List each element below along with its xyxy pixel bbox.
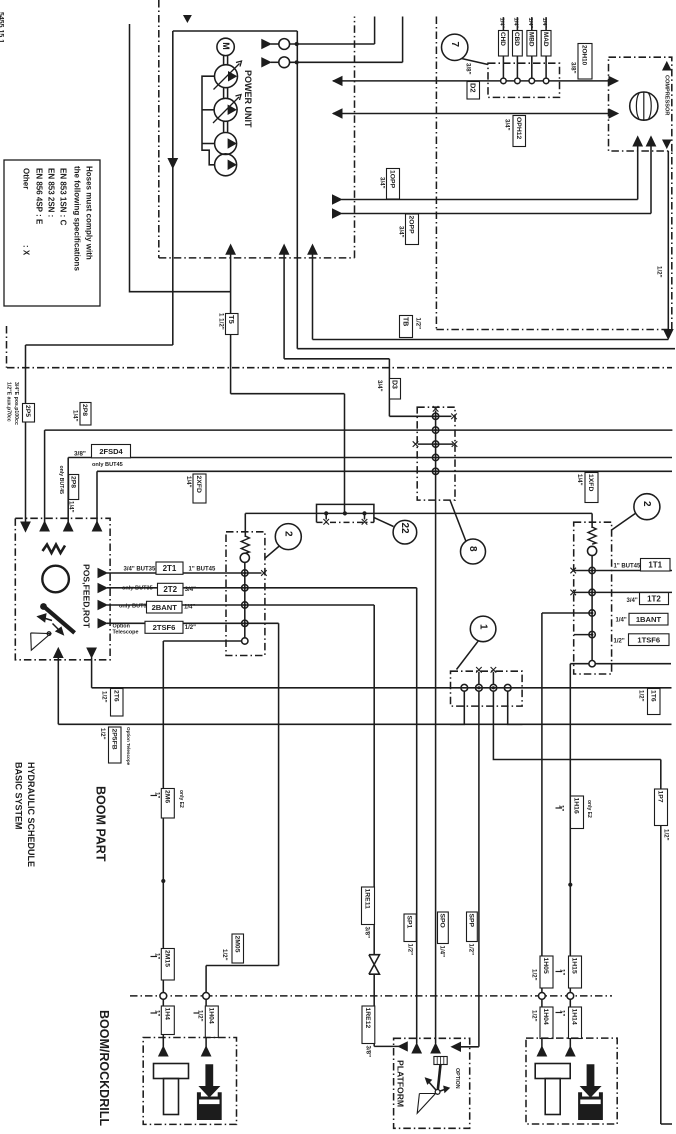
motor M circle [217,38,234,55]
wire bus: return line py349 from power unit frame to right edge [297,348,675,350]
label box SPO [438,912,449,944]
arrow: SPO into platform [431,1044,440,1054]
port 2R-5 bottom open [589,661,595,667]
symbol: joystick grip hatched [434,1057,447,1065]
svg-text:1T1: 1T1 [648,561,662,570]
callout circle 22 [393,520,417,544]
svg-text:only BUT45: only BUT45 [58,466,64,495]
wire: power-unit zone right dash-dot boundary [354,17,356,258]
svg-text:1/2": 1/2" [196,1010,203,1022]
svg-text:BOOM/ROCKDRILL: BOOM/ROCKDRILL [97,1010,111,1126]
wire: MAD riser [545,17,547,78]
wire: check to ports [591,556,593,664]
wire 2OPP: compressor supply 2 [342,213,652,215]
compressor dash-dot box [609,57,672,151]
svg-text:1": 1" [558,1010,565,1016]
svg-text:D2: D2 [469,83,478,93]
port 2R-2 1T2 [589,589,595,595]
label box 1TSF6 [629,634,670,646]
symbol: lever pivot [47,632,51,636]
frame: small dash-dot stub top-left of boundary [6,326,8,368]
arrow: flow down on power unit left edge [168,159,177,169]
svg-text:1: 1 [477,624,488,630]
svg-text:3/8": 3/8" [74,451,86,458]
node: port 22-2 from T5 [343,511,347,515]
arrow: py430 into POS box (up) [40,522,49,532]
manifold 2-right dash-dot box [574,522,612,674]
svg-text:1T2: 1T2 [647,594,661,603]
label box SPP [467,912,478,942]
arrow: 2P5 into POS box (down) [21,522,30,532]
symbol: drill steel T outline [535,1064,570,1079]
leader circle 1 to box 1 [457,641,479,669]
svg-text:1/2": 1/2" [637,690,644,702]
shaft pump2 to pump3 [223,121,225,132]
svg-text:2M05: 2M05 [233,936,240,953]
wire SP1: 2T2 drop south to platform [416,588,418,1044]
gauge port CHD [501,78,507,84]
label box 1RE12 [362,1006,375,1044]
label box 1BANT [629,613,668,625]
svg-text:2M6: 2M6 [163,790,170,803]
wire: check to port row [244,562,246,641]
svg-text:2T1: 2T1 [163,564,177,573]
arrow: py457 into POS box [64,522,73,532]
wire 2P5FB: drop to py724 bus [57,658,59,725]
arrow: D2 line into compressor box [609,77,618,86]
wire 2M6: from bottom port west [163,640,241,642]
arrow: POS box out 2T2 [98,584,107,593]
svg-text:3/4": 3/4" [627,598,638,604]
port 1-2 [476,684,483,691]
node: boundary coupling 1H15/1H14 [567,993,574,1000]
svg-text:22: 22 [399,523,410,535]
wire: T5 drop to suction manifold 22 [344,394,346,514]
pump P1 variable displacement [215,65,238,88]
wire D3: drop from py359 to manifold 8 port 1 [388,359,390,417]
svg-text:1/4": 1/4" [498,18,504,29]
manifold 2-left dash-dot box [226,532,265,656]
label box 2T2 [158,583,184,595]
symbol: drill steel T outline [154,1064,189,1079]
svg-text:3/8": 3/8" [363,927,370,939]
wire: py471 bus drop into POS box [96,471,98,523]
suction manifold box 22 [317,504,374,522]
svg-text:3/4" BUT35: 3/4" BUT35 [124,567,157,573]
wire: bracket stub pump2 [202,109,214,111]
wire: jog west to 2M05 [206,965,279,967]
svg-text:SP1: SP1 [406,916,413,929]
wire 2T1: to manifold 2-left [107,572,245,574]
tick marks for size labels [151,795,158,797]
svg-text:2T6: 2T6 [112,690,119,702]
wire 2TSF6: to corner at 278.6 [107,622,279,624]
label box OPH12 [513,116,526,147]
svg-text:1/2": 1/2" [99,728,106,740]
svg-text:2XFD: 2XFD [195,476,202,493]
shutoff valve bowtie on 1RE line [369,955,380,965]
wire 1P7: drop along right edge [660,760,662,1125]
arrow: 2M6 into rockdrill left [159,1047,168,1057]
shaft pump1 to pump2 [223,88,225,99]
symbol: relief spring zigzag [43,545,66,554]
label 2P8 box lower [69,475,79,500]
svg-text:1RE12: 1RE12 [364,1008,371,1029]
wire: port 1-4 jog to py724 bus east [508,691,523,724]
callout circle 8 [461,539,486,564]
frame: dash-dot boundary between boom part and boom/rockdrill [130,995,612,997]
wire: power unit right frame down [296,31,298,349]
svg-text:HYDRAULIC SCHEDULE: HYDRAULIC SCHEDULE [26,762,36,867]
label box 1H05 [540,956,553,988]
svg-text:Option: Option [113,623,130,629]
svg-text:Telescope: Telescope [113,630,139,636]
svg-text:2BANT: 2BANT [152,603,178,612]
label box 1RE11 [362,887,375,925]
power unit frame left edge [172,31,174,345]
wire: port 1-1 jog to py724 bus west [450,691,464,724]
svg-text:1H16: 1H16 [573,798,580,814]
label box 1H04 right [540,1007,553,1039]
svg-text:5455 15 1: 5455 15 1 [0,12,4,43]
svg-text:2M15: 2M15 [163,950,170,967]
wire: 1RE12 below valve [373,974,375,1046]
wire bus 2P5FB: py724 bus [58,723,671,725]
label box 2M15 [161,949,174,981]
frame: dash-dot zone boundary left of power unit [158,0,160,258]
svg-text:1/4": 1/4" [527,18,533,29]
wire: bottom port west then down [570,663,589,665]
svg-text:2T2: 2T2 [163,585,177,594]
label box 1P7 [655,789,668,826]
svg-text:1/2": 1/2" [614,639,625,645]
svg-text:3/4": 3/4" [185,587,196,593]
check valve in manifold 2-left [240,553,249,562]
leader manifold8 to circle 8 [450,500,466,541]
port 8-4 on py457 bus [432,454,438,460]
wire: pump outlet 1 to check valve [271,43,279,45]
arrow: POS box out 2BANT [98,601,107,610]
wire: CV1 line riser up [374,17,376,45]
svg-text:1/4": 1/4" [576,474,583,486]
manifold 8 dash-dot box [417,407,455,500]
symbol: joystick pivot [435,1090,440,1095]
svg-text:1/2": 1/2" [655,266,662,278]
node: boundary coupling 2M05/1H04 [203,993,210,1000]
port 8-2 on py430 bus [432,427,438,433]
wire: 1RE12 entry east into box [374,1045,407,1047]
wire: T5 jog east [231,393,345,395]
svg-text:OPH12: OPH12 [515,117,522,140]
svg-text:2P5FB: 2P5FB [110,729,117,750]
port 2L-3 on 2BANT [242,602,248,608]
label box 2P5FB [109,727,122,763]
svg-text:the following specifications: the following specifications [73,166,82,271]
label box 2T6 [111,689,124,717]
svg-text:1/4": 1/4" [616,618,627,624]
arrow: receiver line up [663,62,671,70]
svg-text:PLATFORM: PLATFORM [395,1060,405,1107]
arrow: riser 284 into power unit [280,245,289,255]
wire: compressor zone dash-dot boundary right [671,151,673,330]
leader manifold 2-right to circle 2 right [612,514,636,531]
arrow: POS box bottom port 2P5FB (up) [54,648,63,658]
svg-text:1/4": 1/4" [185,476,192,488]
wire: compressor zone dash-dot boundary horizontal [436,329,671,331]
wire 1BANT: from west corner to port [542,612,592,614]
wire bus 2FSD4: py457 bus [68,457,672,459]
wire bus 2XFD/1XFD: py471 bus [97,470,672,472]
wire 2BANT: to corner at 374.2 [107,604,374,606]
symbol: spring on manifold 2-right [588,527,596,544]
svg-text:1/2"E aux.p70cc: 1/2"E aux.p70cc [6,382,12,422]
wire 2M6: boom hose down to rockdrill left [162,641,164,1048]
port 2L-5 bottom open [242,638,248,644]
svg-text:Other: Other [22,168,31,189]
label box 1T1 [641,559,671,572]
svg-text:2OPP: 2OPP [408,216,415,235]
gauge port CBD [515,78,521,84]
arrow: SP1 into platform [412,1044,421,1054]
label box SP1 [404,914,416,942]
label box 1XFD [585,473,598,503]
svg-text:1/2": 1/2" [221,949,228,961]
svg-text:2: 2 [641,501,652,507]
gauge port MBD [529,78,535,84]
pump P2 variable displacement [214,98,237,121]
svg-text:MBD: MBD [527,32,534,47]
svg-text:MAD: MAD [542,32,549,47]
symbol: gauge circle [42,566,69,593]
wire: pump outlet 2 to check valve [271,61,279,63]
svg-text:OPTION: OPTION [454,1068,460,1089]
valve block POS,FEED,ROT dash-dot box [15,518,110,660]
wire: stub 22-1 plug [325,513,327,519]
label box 2FSD4 [92,445,131,458]
platform dash-dot box [394,1038,470,1128]
symbol: spring on manifold 2-left [241,536,249,553]
node: boundary coupling 1H05/1H04 [539,993,546,1000]
shaft motor to pump1 [223,56,225,65]
callout circle 1 [470,616,496,642]
frame: main dash-dot boundary between power unit and boom part [7,367,672,369]
check valve in manifold 2-right [588,546,597,555]
plug X on manifold 8 top [433,406,439,412]
symbol: joystick arrow left [428,1081,438,1092]
arrow: 1OPP into compressor [633,137,642,147]
label box 1H15 [569,956,582,988]
svg-text:Hoses must comply with: Hoses must comply with [85,166,94,260]
wire: CV2 line riser up [402,17,404,63]
wire 1OPP: compressor supply 1 [342,199,638,201]
port 1-1 open on py688 bus [461,684,468,691]
svg-text:SPP: SPP [467,914,474,928]
svg-text:CHD: CHD [499,32,506,46]
wire 2M05: down to boundary [205,966,207,1049]
label box 2T1 [156,562,183,574]
svg-text:1 1/2": 1 1/2" [217,313,224,330]
svg-text:2P8: 2P8 [69,476,76,488]
label 2P8 box upper [80,403,91,426]
arrow: T5 into power unit [226,245,235,255]
label box T5 [226,314,239,335]
svg-text:1/2": 1/2" [530,1010,537,1022]
port 2R-4 1TSF6 [589,631,595,637]
svg-text:BASIC SYSTEM: BASIC SYSTEM [13,762,23,830]
wire: 1OPP riser into compressor [637,146,639,200]
svg-text:T5: T5 [227,315,236,324]
wire: 2OPP riser into compressor [650,146,652,214]
wire: power-unit zone bottom dash-dot boundary [159,257,355,259]
svg-text:2OH10: 2OH10 [581,45,588,66]
svg-text:1H05: 1H05 [542,958,549,974]
marker: small triangle above power unit [184,16,191,23]
symbol: lever arrow 2 [53,624,60,631]
arrow: 2OPP west end [333,209,342,218]
arrow: SPP entry pointing west [452,1042,461,1051]
symbol: coupling bucket solid [578,1092,603,1120]
wire bus: suction line py513 [245,512,592,514]
symbol: coupling bucket solid [197,1092,222,1120]
label box 2M6 [161,789,174,819]
wire: py457 bus drop into POS box [67,458,69,524]
power unit frame top edge [173,30,297,32]
wire: check valve 2 output east [290,61,403,63]
wire D2: gauge line [333,80,609,82]
svg-text:only BUT35: only BUT35 [119,604,150,610]
leader from circle 7 to gauge manifold [462,59,489,65]
svg-text:1T6: 1T6 [649,690,656,702]
symbol: impact arrow solid [580,1064,602,1097]
arrow: POS box bottom port 2T6 (down) [87,648,96,658]
pump P4 fixed displacement [215,154,237,176]
label box 2M05 [232,934,244,963]
wire SPP: port 1-2 drop south [478,691,480,1047]
label box D2 [467,82,480,100]
svg-text:3/4"E pos.p100cc: 3/4"E pos.p100cc [13,382,19,425]
svg-text:1H14: 1H14 [571,1009,578,1025]
svg-text:Option Telescope: Option Telescope [126,727,131,766]
arrow: POS box out 2T1 [98,569,107,578]
svg-text:1" BUT45: 1" BUT45 [614,563,642,569]
wire: py513 drop into manifold 2-left [244,513,246,537]
svg-text:1XFD: 1XFD [587,474,594,491]
wire 1P7: port 1-3 drop then east [493,691,660,759]
label box 1H14 [569,1007,582,1039]
gauge port MAD [543,78,549,84]
arrow: drain onto return bus [664,330,673,340]
port 2R-1 1T1 [589,567,595,573]
svg-text:1/2": 1/2" [467,944,474,956]
wire bus: line py359 from riser 284 to D3 drop [284,358,389,360]
svg-text:EN 853 2SN :: EN 853 2SN : [47,168,56,217]
svg-text:1/4": 1/4" [541,18,547,29]
arrow: POS box out 2TSF6 [98,619,107,628]
svg-text:EN 853 1SN : C: EN 853 1SN : C [59,168,68,226]
wire: py430 bus drop into POS box [44,430,46,523]
wire: return line T5 riser [230,254,232,394]
wire bus 2T6/1T6: py688 return bus [92,687,672,689]
wire: CBD riser [516,17,518,78]
port 2L-2 on 2T2 [242,585,248,591]
check valve CV1 [279,39,290,50]
port 1-3 [490,684,497,691]
svg-text:1/2": 1/2" [100,691,107,703]
callout circle 2 left [275,524,301,550]
svg-text:2TSF6: 2TSF6 [153,623,176,632]
wire OPH12: gauge line 2 [333,113,609,115]
svg-text:3/4": 3/4" [376,380,383,392]
leader manifold 2-left to circle 2 [265,546,279,558]
port 8-5 on py471 bus [432,468,438,474]
symbol: joystick lever [438,1065,441,1092]
symbol: pedal wedge [31,633,51,650]
arrow: 1OPP west end [333,195,342,204]
pump P3 fixed displacement [215,133,237,155]
label TB [400,316,413,338]
node: port 22-1 [324,511,328,515]
svg-text:1/2": 1/2" [185,625,196,631]
svg-text:1/2": 1/2" [662,829,669,841]
arrow: entry pointing west [398,1042,407,1051]
wire: 1P7 bottom hook [661,1123,672,1125]
svg-text:1H04: 1H04 [207,1008,214,1024]
symbol: lever valve diagonal [42,605,75,633]
arrow: OPH12 west end [333,109,342,118]
symbol: impact arrow solid [198,1064,220,1097]
svg-text:1/2": 1/2" [530,969,537,981]
svg-text:D3: D3 [390,380,397,389]
node: junction CV2 / return riser [295,60,299,64]
arrow: D2 line west end [333,77,342,86]
rockdrill dash-dot box [526,1038,617,1124]
wire: MBD riser [531,17,533,78]
node: port 22-3 [362,511,366,515]
svg-text:2: 2 [283,531,294,537]
wire 1T2: port to right edge [573,591,672,593]
label box 1T6 [648,689,661,715]
svg-text:1H15: 1H15 [571,958,578,974]
wire 2T2: to corner at 416.7 [107,587,417,589]
wire 1TSF6: from box edge to port [574,634,592,636]
svg-text:SPO: SPO [438,914,445,928]
wire: pump suction bracket [202,76,215,165]
rockdrill dash-dot box [143,1038,236,1125]
port 2L-4 on 2TSF6 [242,620,248,626]
symbol: pedal wedge platform [417,1094,435,1114]
port 8-1 [432,413,438,419]
svg-text:3/8": 3/8" [364,1046,371,1058]
svg-text:1BANT: 1BANT [636,615,662,624]
wire: port 1-3 plug stub up [492,672,494,685]
check valve CV2 [279,57,290,68]
frame: compressor zone dash-dot boundary vertical [435,17,437,330]
svg-text:2FSD4: 2FSD4 [99,447,123,456]
svg-text:1/4": 1/4" [438,946,445,958]
svg-text:BOOM PART: BOOM PART [94,786,108,862]
svg-text:EN 856 4SP : E: EN 856 4SP : E [35,168,44,225]
port 2L-1 on 2T1 [242,570,248,576]
svg-text:1P7: 1P7 [657,791,664,803]
plug X left of port 2R-2 [570,590,576,596]
svg-text:1TSF6: 1TSF6 [637,635,660,644]
gauge manifold dash-dot box (item 7) [488,63,560,97]
wire 2TSF6 ext: drop south [278,623,280,965]
arrow: py471 into POS box [92,522,101,532]
svg-text:3/4": 3/4" [503,119,510,131]
svg-text:1RE11: 1RE11 [364,889,371,910]
svg-text:3/8": 3/8" [464,63,471,75]
